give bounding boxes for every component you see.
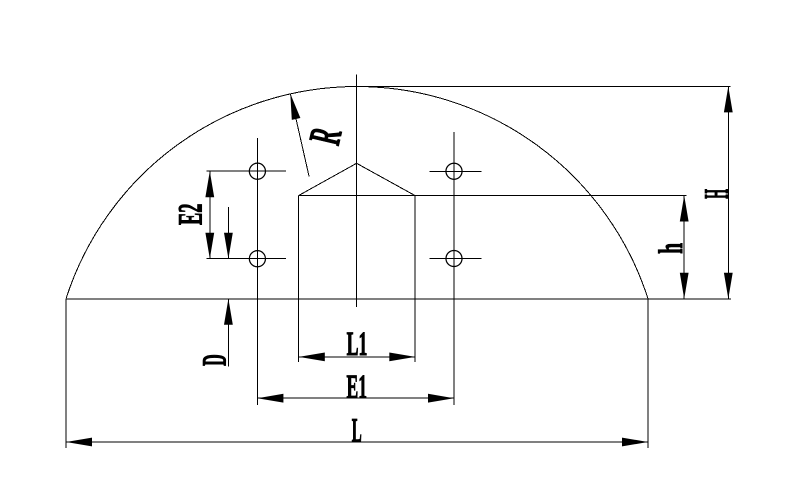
svg-text:R: R (299, 123, 351, 149)
vertical centerline (355, 74, 357, 307)
arrow h bottom (680, 273, 689, 299)
dimension D lower segment (227, 299, 229, 367)
outline arc (66, 87, 648, 299)
L right extension line (647, 299, 649, 448)
arrow L1 right (389, 353, 415, 362)
dimension E2 line (209, 171, 211, 259)
arrow E1 right (428, 394, 454, 403)
arrow E2 bottom (205, 233, 214, 259)
dimension H line (727, 86, 729, 298)
arrow D down (224, 233, 233, 259)
dimension L line (66, 441, 648, 443)
tab right edge (414, 196, 416, 363)
svg-text:L1: L1 (347, 326, 368, 363)
roof left slope (299, 163, 357, 195)
dimension D upper segment (227, 207, 229, 259)
right holes vertical centerline (453, 132, 455, 405)
bottom-left hole horizontal crosshair / E2 bottom extension (207, 258, 287, 260)
arrow L right (622, 438, 648, 447)
hole top-left (249, 163, 265, 179)
svg-text:D: D (197, 354, 234, 366)
hole top-right (446, 163, 462, 179)
arrow L1 left (299, 353, 325, 362)
arrow h top (680, 196, 689, 222)
arrow H bottom (724, 273, 733, 299)
L left extension line (65, 299, 67, 448)
svg-text:h: h (653, 243, 690, 254)
radius leader line R (290, 94, 309, 177)
hole bottom-left (249, 251, 265, 267)
arrow R leader (290, 94, 300, 120)
top-left hole horizontal crosshair / E2 top extension (207, 170, 287, 172)
svg-text:L: L (352, 413, 362, 450)
apex extension line for H (356, 85, 730, 87)
svg-text:H: H (698, 189, 735, 199)
dimension E1 line (257, 397, 454, 399)
bottom-right hole horizontal crosshair (430, 258, 482, 260)
arrow L left (66, 438, 92, 447)
roof right slope (357, 163, 415, 195)
svg-text:E2: E2 (173, 204, 210, 225)
dimension L1 line (299, 356, 416, 358)
top-right hole horizontal crosshair (430, 170, 482, 172)
tab left edge (298, 196, 300, 363)
arrow H top (724, 86, 733, 112)
svg-text:E1: E1 (347, 369, 368, 406)
hole bottom-right (446, 250, 462, 266)
tab top edge and h extension line (299, 195, 687, 197)
arrow D up (224, 299, 233, 325)
baseline (66, 298, 731, 300)
arrow E2 top (205, 171, 214, 197)
arrow E1 left (257, 394, 283, 403)
left holes vertical centerline (256, 138, 258, 405)
dimension h line (683, 196, 685, 299)
